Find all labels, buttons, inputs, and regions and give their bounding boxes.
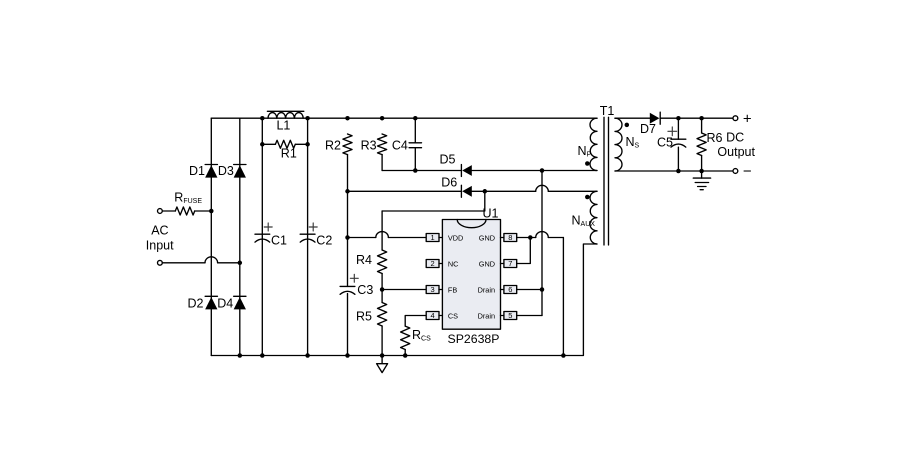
pin 3 name FB — [448, 285, 457, 294]
svg-text:T1: T1 — [600, 104, 615, 118]
label U1 — [483, 207, 499, 221]
resistor R5 — [378, 290, 387, 356]
pin 2 box — [426, 260, 442, 268]
terminal DC plus — [733, 116, 738, 121]
inductor L1 — [267, 111, 303, 118]
label R5 — [356, 310, 372, 324]
label D5 — [440, 153, 456, 167]
label R6 — [707, 131, 723, 145]
label DC — [726, 130, 744, 144]
junction drain top — [540, 168, 545, 173]
wire pin8 GND — [517, 232, 564, 238]
label plus — [743, 111, 752, 128]
junction R6 top — [699, 116, 704, 121]
terminal AC live — [158, 209, 163, 214]
pin 1 number — [431, 233, 435, 242]
wire R1 right — [295, 143, 307, 145]
svg-text:2: 2 — [431, 259, 435, 268]
resistor R1 — [275, 140, 295, 148]
svg-text:R2: R2 — [325, 139, 341, 153]
wire R1 left — [262, 143, 275, 145]
svg-text:L1: L1 — [276, 118, 290, 132]
pin 8 number — [508, 233, 512, 242]
junction D6-R4 — [483, 189, 488, 194]
label R1 — [281, 146, 297, 160]
wire D3-D4 branch — [239, 118, 241, 355]
svg-text:D6: D6 — [441, 175, 457, 189]
junction RCS bottom — [403, 353, 408, 358]
label C2 plus — [309, 223, 317, 231]
svg-text:D4: D4 — [217, 297, 233, 311]
svg-text:D5: D5 — [440, 153, 456, 167]
pin 8 box — [501, 234, 517, 242]
wire R3 bottom — [381, 155, 383, 171]
winding NP — [590, 118, 597, 170]
svg-text:−: − — [743, 163, 752, 180]
svg-text:R3: R3 — [361, 139, 377, 153]
wire RFUSE to bridge — [195, 210, 212, 212]
pin 7 box — [501, 260, 517, 268]
diode D4 — [234, 296, 246, 309]
resistor R6 — [697, 118, 706, 171]
pin 2 number — [431, 259, 435, 268]
diode D5 — [461, 165, 471, 177]
diode D2 — [205, 296, 217, 309]
wire NS top — [615, 117, 650, 119]
diode D6 — [461, 185, 471, 197]
pin 4 box — [426, 312, 442, 320]
terminal DC minus — [733, 169, 738, 174]
junction C4 top — [413, 116, 418, 121]
resistor R4 — [378, 211, 387, 290]
wire C2 branch — [307, 118, 309, 355]
svg-text:VDD: VDD — [448, 233, 463, 242]
wire bottom rail — [211, 244, 597, 356]
pin 6 box — [501, 286, 517, 294]
wire C1 branch — [261, 118, 263, 355]
svg-text:Drain: Drain — [478, 311, 495, 320]
label RCS — [412, 328, 431, 343]
svg-text:Drain: Drain — [478, 285, 495, 294]
junction R5 bottom — [380, 353, 385, 358]
junction GND rail — [561, 353, 566, 358]
diode D7 — [650, 112, 660, 124]
transformer core — [604, 117, 609, 245]
phase dot NAUX — [585, 195, 590, 200]
pin 6 name Drain — [478, 285, 495, 294]
winding NAUX — [590, 191, 597, 244]
label D2 — [188, 297, 204, 311]
junction C1 bottom — [260, 353, 265, 358]
junction R1 right — [305, 142, 310, 147]
pin 1 name VDD — [448, 233, 463, 242]
wire D6 line — [348, 185, 598, 191]
junction C4 bottom — [413, 168, 418, 173]
phase dot NS — [625, 123, 630, 128]
junction R1 left — [260, 142, 265, 147]
svg-text:R6: R6 — [707, 131, 723, 145]
svg-text:GND: GND — [479, 233, 495, 242]
wire pin7 GND — [517, 238, 531, 264]
svg-text:D2: D2 — [188, 297, 204, 311]
resistor RCS — [401, 316, 426, 356]
resistor R2 — [343, 134, 352, 155]
junction D4 bottom — [238, 353, 243, 358]
capacitor C5 — [671, 118, 686, 171]
wire VDD — [348, 232, 427, 238]
label C5 plus — [668, 127, 677, 136]
label R3 — [361, 139, 377, 153]
junction AC-D4 — [238, 261, 243, 266]
label SP2638P — [448, 332, 500, 346]
svg-text:NC: NC — [448, 259, 459, 268]
label RFUSE — [174, 191, 202, 206]
diode D3 — [234, 165, 246, 178]
wire AC neutral — [162, 257, 240, 263]
svg-text:5: 5 — [508, 311, 512, 320]
label D3 — [218, 164, 234, 178]
wire D7 to out — [660, 117, 735, 119]
wire pin5 drain — [517, 315, 542, 317]
label Output — [717, 145, 755, 159]
ground flag — [377, 356, 388, 373]
svg-text:C4: C4 — [392, 139, 408, 153]
svg-text:CS: CS — [448, 311, 458, 320]
winding NS — [615, 118, 622, 171]
svg-text:4: 4 — [431, 311, 435, 320]
diode D1 — [205, 165, 217, 178]
svg-text:FB: FB — [448, 285, 457, 294]
junction RFUSE-D1 — [209, 209, 214, 214]
label C2 — [316, 234, 332, 248]
svg-text:R4: R4 — [356, 253, 372, 267]
label D4 — [217, 297, 233, 311]
junction R3 top — [380, 116, 385, 121]
capacitor C1 — [255, 234, 270, 242]
pin 1 box — [426, 234, 442, 242]
svg-text:C2: C2 — [316, 234, 332, 248]
svg-text:C3: C3 — [357, 283, 373, 297]
svg-text:GND: GND — [479, 259, 495, 268]
wire D5 line — [382, 170, 597, 172]
label D1 — [189, 164, 205, 178]
wire D6 to R4 — [382, 191, 485, 211]
phase dot NP — [585, 161, 590, 166]
label R4 — [356, 253, 372, 267]
svg-text:Input: Input — [146, 239, 174, 253]
label minus — [743, 163, 752, 180]
resistor RFUSE — [175, 207, 194, 215]
svg-text:7: 7 — [508, 259, 512, 268]
ground output — [693, 171, 710, 190]
wire drain vertical — [541, 171, 543, 316]
svg-text:D1: D1 — [189, 164, 205, 178]
label NAUX — [572, 214, 596, 229]
label C4 — [392, 139, 408, 153]
pin 5 box — [501, 312, 517, 320]
svg-text:DC: DC — [726, 130, 744, 144]
junction R2 top — [345, 116, 350, 121]
label C3 — [357, 283, 373, 297]
pin 6 number — [508, 285, 512, 294]
op-amp U1 body — [442, 220, 500, 330]
label C1 plus — [264, 223, 272, 231]
pin 3 number — [431, 285, 435, 294]
junction R6 bottom — [699, 169, 704, 174]
label NS — [626, 135, 640, 150]
label L1 — [276, 118, 290, 132]
label C3 plus — [350, 274, 358, 282]
svg-text:3: 3 — [431, 285, 435, 294]
junction C5 bottom — [676, 169, 681, 174]
svg-text:Output: Output — [717, 145, 755, 159]
capacitor C2 — [300, 234, 315, 242]
wire AC live — [162, 210, 175, 212]
junction L1 right — [305, 116, 310, 121]
label R2 — [325, 139, 341, 153]
junction FB — [380, 287, 385, 292]
svg-text:SP2638P: SP2638P — [448, 332, 500, 346]
pin 4 number — [431, 311, 435, 320]
label C5 — [657, 135, 673, 149]
label D6 — [441, 175, 457, 189]
wire NS bottom — [615, 170, 735, 172]
capacitor C3 — [340, 238, 355, 356]
junction C5 top — [676, 116, 681, 121]
svg-text:U1: U1 — [483, 207, 499, 221]
pin 2 name NC — [448, 259, 459, 268]
junction C3 bottom — [345, 353, 350, 358]
label NP — [578, 144, 592, 159]
label Input — [146, 239, 174, 253]
svg-text:D3: D3 — [218, 164, 234, 178]
svg-text:C1: C1 — [271, 234, 287, 248]
pin 4 name CS — [448, 311, 458, 320]
svg-text:R5: R5 — [356, 310, 372, 324]
svg-text:C5: C5 — [657, 135, 673, 149]
label D7 — [640, 122, 656, 136]
junction R2-D6 — [345, 189, 350, 194]
wire GND drop — [562, 238, 564, 356]
wire FB — [382, 289, 426, 291]
terminal AC neutral — [158, 260, 163, 265]
junction pin8 — [528, 235, 533, 240]
svg-text:+: + — [743, 111, 752, 128]
wire pin6 drain — [517, 289, 542, 291]
junction L1 left — [260, 116, 265, 121]
pin 3 box — [426, 286, 442, 294]
label C1 — [271, 234, 287, 248]
svg-text:6: 6 — [508, 285, 512, 294]
pin 7 name GND — [479, 259, 495, 268]
svg-text:AC: AC — [151, 224, 168, 238]
pin 5 name Drain — [478, 311, 495, 320]
label T1 — [600, 104, 615, 118]
wire D1-D2 branch — [210, 118, 212, 355]
svg-text:R1: R1 — [281, 146, 297, 160]
wire top rail — [211, 117, 597, 119]
pin 7 number — [508, 259, 512, 268]
capacitor C4 — [409, 118, 421, 170]
resistor R3 — [378, 134, 387, 155]
svg-text:8: 8 — [508, 233, 512, 242]
junction R2-VDD — [345, 235, 350, 240]
svg-text:1: 1 — [431, 233, 435, 242]
svg-text:D7: D7 — [640, 122, 656, 136]
junction C2 bottom — [305, 353, 310, 358]
pin 8 name GND — [479, 233, 495, 242]
wire R2 to VDD node — [347, 155, 349, 238]
label AC — [151, 224, 168, 238]
pin 5 number — [508, 311, 512, 320]
junction pin6 drain — [540, 287, 545, 292]
